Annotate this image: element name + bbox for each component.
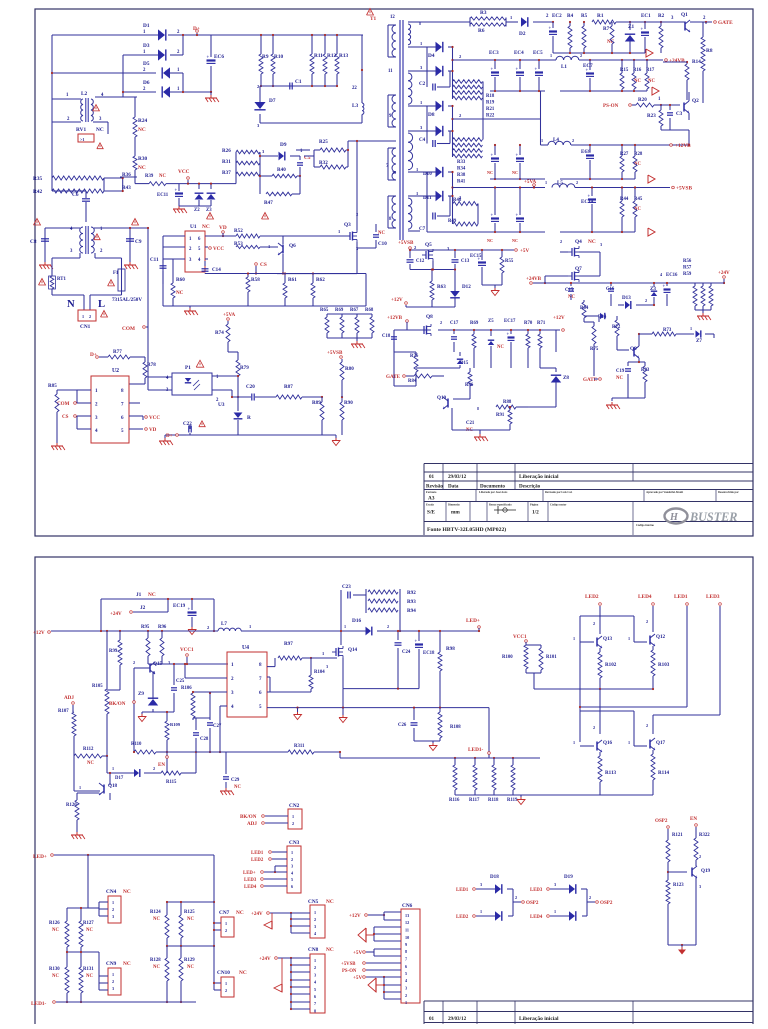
svg-text:+5VSB: +5VSB (341, 962, 356, 967)
svg-text:Q12: Q12 (656, 634, 666, 640)
svg-text:R60: R60 (176, 277, 185, 283)
svg-text:LED1: LED1 (456, 888, 469, 893)
svg-text:+24V: +24V (259, 956, 271, 962)
svg-text:2: 2 (572, 138, 574, 143)
svg-text:NC: NC (153, 965, 160, 970)
svg-text:ADJ: ADJ (64, 695, 74, 701)
svg-text:Código interno: Código interno (636, 524, 655, 527)
svg-text:2: 2 (699, 854, 701, 859)
svg-text:Q17: Q17 (656, 740, 666, 746)
svg-text:1: 1 (628, 740, 630, 745)
svg-text:R62: R62 (316, 277, 325, 283)
svg-text:VCC: VCC (213, 246, 224, 252)
svg-text:U2: U2 (112, 368, 119, 374)
svg-text:OSP2: OSP2 (655, 818, 668, 824)
svg-text:3: 3 (699, 884, 701, 889)
svg-text:8: 8 (405, 949, 407, 954)
svg-text:R68: R68 (365, 308, 374, 313)
svg-text:F1: F1 (113, 271, 119, 276)
svg-text:R12: R12 (327, 53, 336, 59)
svg-text:NC: NC (236, 910, 244, 916)
svg-text:OSP2: OSP2 (526, 900, 539, 906)
svg-text:1: 1 (112, 900, 114, 905)
svg-text:Q4: Q4 (575, 239, 582, 245)
svg-text:1: 1 (541, 138, 543, 143)
svg-text:2: 2 (291, 857, 293, 862)
svg-text:8: 8 (314, 1008, 316, 1013)
svg-text:EC1: EC1 (641, 13, 651, 19)
svg-text:L1: L1 (561, 64, 567, 70)
svg-text:EC19: EC19 (173, 603, 186, 609)
svg-text:R20: R20 (638, 97, 647, 103)
svg-text:1: 1 (344, 624, 346, 629)
svg-text:+: + (175, 188, 178, 193)
svg-text:mm: mm (451, 510, 460, 516)
svg-text:1: 1 (550, 53, 552, 58)
svg-text:P1: P1 (185, 365, 191, 371)
svg-text:R38: R38 (457, 173, 466, 178)
svg-text:1: 1 (225, 981, 227, 986)
svg-text:Escala: Escala (426, 504, 434, 507)
svg-text:Q14: Q14 (348, 647, 358, 653)
svg-text:5: 5 (314, 987, 316, 992)
svg-text:R106: R106 (181, 686, 192, 691)
svg-text:NC: NC (497, 345, 504, 350)
svg-text:NC: NC (123, 961, 131, 967)
svg-text:+: + (586, 150, 589, 155)
svg-text:BK/ON: BK/ON (240, 814, 257, 820)
svg-text:D6: D6 (143, 80, 150, 86)
svg-text:C10: C10 (378, 241, 387, 247)
svg-text:R119: R119 (507, 798, 518, 803)
svg-text:EN: EN (158, 762, 165, 768)
svg-text:Q19: Q19 (701, 868, 711, 874)
svg-text:R93: R93 (407, 599, 416, 605)
svg-text:R113: R113 (605, 770, 616, 776)
svg-text:Z5: Z5 (488, 319, 494, 324)
svg-text:R118: R118 (488, 798, 499, 803)
svg-text:R101: R101 (546, 655, 557, 660)
svg-text:NC: NC (512, 170, 518, 175)
svg-text:+5VA: +5VA (223, 312, 235, 318)
svg-text:R115: R115 (166, 780, 177, 785)
svg-text:+: + (516, 153, 519, 158)
svg-text:R40: R40 (277, 167, 286, 173)
svg-text:29/03/12: 29/03/12 (448, 474, 467, 480)
svg-text:Z9: Z9 (138, 691, 144, 697)
svg-text:+: + (516, 213, 519, 218)
svg-text:3: 3 (112, 986, 114, 991)
svg-text:U4: U4 (242, 645, 249, 651)
svg-text:Aprovado por Vanderlei Abatti: Aprovado por Vanderlei Abatti (646, 491, 683, 494)
svg-text:U3: U3 (218, 402, 225, 408)
svg-text:R3: R3 (480, 10, 487, 16)
svg-text:R67: R67 (350, 308, 359, 313)
svg-text:Data: Data (448, 484, 459, 490)
svg-text:R14: R14 (692, 59, 701, 65)
svg-text:NC: NC (138, 165, 146, 171)
svg-text:CN5: CN5 (308, 899, 319, 905)
svg-text:NC: NC (187, 965, 194, 970)
svg-text:NC: NC (176, 290, 184, 296)
svg-text:R311: R311 (294, 744, 305, 749)
svg-text:C12: C12 (416, 259, 425, 264)
svg-text:N: N (67, 299, 75, 310)
svg-text:CN6: CN6 (402, 903, 413, 909)
svg-text:Código motor: Código motor (550, 504, 567, 507)
svg-text:R131: R131 (83, 967, 94, 972)
svg-text:NC: NC (148, 592, 156, 598)
svg-text:NC: NC (487, 170, 493, 175)
svg-text:EC17: EC17 (504, 319, 516, 324)
svg-text:R47: R47 (264, 200, 273, 206)
svg-text:3: 3 (314, 972, 316, 977)
svg-text:Liberado por José Assis: Liberado por José Assis (479, 491, 508, 494)
svg-text:3: 3 (405, 986, 407, 991)
svg-text:LED2: LED2 (456, 915, 469, 920)
svg-text:C26: C26 (398, 723, 407, 728)
svg-text:H: H (669, 512, 679, 523)
svg-text:EC2: EC2 (552, 13, 562, 19)
svg-text:NC: NC (138, 127, 146, 133)
svg-text:1: 1 (480, 909, 482, 914)
svg-text:R114: R114 (658, 770, 669, 776)
svg-text:T1: T1 (370, 16, 377, 22)
svg-text:EC15: EC15 (470, 254, 482, 259)
svg-text:R112: R112 (83, 747, 94, 752)
svg-text:+: + (478, 257, 481, 262)
svg-text:NC: NC (187, 917, 194, 922)
svg-text:+12V: +12V (33, 630, 45, 636)
svg-text:2: 2 (225, 928, 227, 933)
svg-text:1: 1 (554, 909, 556, 914)
svg-text:+: + (491, 213, 494, 218)
svg-text:GATE: GATE (386, 374, 401, 380)
svg-text:NC: NC (123, 889, 131, 895)
svg-text:LED+: LED+ (33, 854, 47, 860)
svg-text:D16: D16 (352, 618, 361, 624)
svg-text:BUSTER: BUSTER (689, 510, 737, 524)
svg-text:Q3: Q3 (344, 222, 351, 228)
svg-text:1: 1 (291, 850, 293, 855)
svg-text:+12VB: +12VB (387, 315, 403, 321)
svg-text:R98: R98 (446, 646, 455, 652)
svg-text:2: 2 (515, 895, 517, 900)
svg-text:R11: R11 (314, 53, 323, 59)
svg-text:Formato: Formato (426, 491, 437, 494)
svg-text:3: 3 (326, 664, 328, 669)
svg-text:R126: R126 (49, 921, 60, 926)
svg-text:D2: D2 (519, 31, 526, 37)
svg-text:C25: C25 (176, 679, 185, 684)
svg-text:R59: R59 (683, 272, 692, 277)
svg-text:R52: R52 (234, 228, 243, 234)
svg-text:R10: R10 (274, 54, 283, 60)
svg-text:7315AL/250V: 7315AL/250V (112, 297, 142, 303)
svg-text:R35: R35 (33, 176, 42, 182)
svg-text:Descrição: Descrição (519, 484, 541, 490)
svg-text:R39: R39 (145, 174, 154, 179)
svg-text:VCC: VCC (178, 169, 190, 175)
svg-text:+: + (516, 67, 519, 72)
svg-text:EC5: EC5 (533, 50, 543, 56)
svg-text:Desenvolvido por: Desenvolvido por (718, 491, 740, 494)
svg-text:NC: NC (588, 239, 596, 245)
svg-text:LED1-: LED1- (31, 1001, 47, 1007)
svg-text:13: 13 (405, 913, 409, 918)
svg-text:C17: C17 (450, 321, 459, 326)
svg-text:R65: R65 (320, 308, 329, 313)
svg-text:EC11: EC11 (157, 193, 169, 198)
svg-text:R130: R130 (49, 967, 60, 972)
svg-text:C18: C18 (382, 334, 391, 339)
svg-text:+24V: +24V (251, 911, 263, 917)
svg-text:5: 5 (405, 971, 407, 976)
svg-text:CS: CS (260, 262, 267, 268)
svg-text:NC: NC (234, 785, 241, 790)
svg-text:R94: R94 (407, 608, 416, 614)
svg-text:C2: C2 (419, 81, 426, 87)
svg-text:2: 2 (387, 624, 389, 629)
svg-text:2: 2 (576, 180, 578, 185)
svg-text:LED2: LED2 (585, 594, 599, 600)
svg-text:J1: J1 (136, 592, 142, 598)
svg-text:Página: Página (530, 504, 539, 507)
svg-text:+5VSB: +5VSB (398, 240, 414, 246)
svg-text:Z7: Z7 (696, 338, 702, 344)
svg-text:2: 2 (89, 314, 91, 319)
svg-text:Q8: Q8 (426, 314, 433, 320)
svg-text:Fonte HBTV-32L05HD (MP022): Fonte HBTV-32L05HD (MP022) (427, 526, 506, 533)
svg-text:C29: C29 (231, 778, 240, 783)
svg-text:L7: L7 (221, 621, 227, 627)
svg-text:+: + (491, 67, 494, 72)
svg-text:Q16: Q16 (603, 740, 613, 746)
svg-text:R105: R105 (92, 684, 103, 689)
svg-text:2: 2 (112, 979, 114, 984)
svg-text:2: 2 (580, 53, 582, 58)
svg-text:01: 01 (429, 474, 435, 480)
svg-text:R107: R107 (58, 709, 69, 714)
svg-text:+5VSB: +5VSB (327, 350, 343, 356)
svg-text:2: 2 (593, 621, 595, 626)
svg-text:R58: R58 (251, 277, 260, 283)
svg-text:R102: R102 (605, 662, 617, 668)
svg-text:NC: NC (378, 231, 385, 236)
svg-text:1: 1 (225, 921, 227, 926)
svg-text:R7: R7 (603, 26, 610, 32)
svg-text:NC: NC (96, 127, 104, 133)
svg-text:R121: R121 (672, 833, 683, 838)
svg-text:LED3: LED3 (706, 594, 720, 600)
svg-text:LED+: LED+ (466, 618, 480, 624)
svg-text:C3: C3 (676, 111, 683, 117)
svg-text:10: 10 (405, 935, 409, 940)
svg-text:RV1: RV1 (76, 127, 86, 133)
svg-text:L4: L4 (553, 137, 559, 143)
svg-text:GATE: GATE (718, 20, 733, 26)
svg-text:3: 3 (112, 914, 114, 919)
svg-text:C9: C9 (135, 239, 142, 245)
svg-text:VCC1: VCC1 (180, 647, 194, 653)
svg-text:R322: R322 (699, 833, 710, 838)
svg-text:C28: C28 (200, 737, 209, 742)
svg-text:D17: D17 (115, 776, 124, 781)
svg-text:R69: R69 (335, 308, 344, 313)
svg-text:R104: R104 (314, 670, 325, 675)
svg-text:A3: A3 (428, 496, 435, 502)
svg-text:R26: R26 (222, 148, 231, 154)
svg-text:7: 7 (314, 1001, 316, 1006)
svg-text:6: 6 (405, 964, 407, 969)
svg-text:R9: R9 (262, 54, 269, 60)
svg-text:2: 2 (153, 766, 155, 771)
svg-text:R61: R61 (288, 277, 297, 283)
svg-text:EC3: EC3 (489, 50, 499, 56)
svg-text:+24V: +24V (110, 611, 122, 617)
svg-text:1: 1 (690, 326, 692, 331)
svg-text:+12V: +12V (553, 315, 565, 321)
svg-text:LED2: LED2 (251, 858, 264, 863)
svg-text:R: R (247, 415, 251, 421)
svg-text:R84: R84 (408, 379, 417, 384)
svg-text:12: 12 (405, 920, 409, 925)
svg-text:R88: R88 (503, 400, 512, 405)
svg-text:L3: L3 (352, 103, 359, 109)
svg-text:R4: R4 (567, 13, 574, 19)
svg-text:Documento: Documento (480, 484, 505, 490)
svg-text:+24VB: +24VB (669, 58, 685, 64)
svg-text:NC: NC (648, 79, 655, 84)
svg-text:R24: R24 (138, 118, 147, 124)
svg-text:+12VB: +12VB (675, 143, 691, 149)
svg-text:LED4: LED4 (638, 594, 652, 600)
svg-text:1: 1 (79, 785, 81, 790)
svg-text:CN7: CN7 (219, 910, 230, 916)
svg-text:30: 30 (392, 170, 396, 175)
svg-text:R63: R63 (437, 284, 446, 290)
svg-text:L: L (98, 299, 105, 310)
svg-text:R33: R33 (457, 160, 466, 165)
svg-text:+: + (588, 194, 591, 199)
svg-text:Dimensão: Dimensão (448, 504, 460, 507)
svg-text:EC18: EC18 (423, 651, 435, 656)
svg-text:CN8: CN8 (308, 947, 319, 953)
svg-text:EN: EN (690, 816, 697, 822)
svg-text:L2: L2 (81, 91, 88, 97)
svg-text:6: 6 (314, 994, 316, 999)
svg-text:3: 3 (314, 924, 316, 929)
svg-text:R21: R21 (486, 107, 495, 112)
svg-text:R8: R8 (706, 48, 713, 54)
svg-text:NC: NC (52, 928, 59, 933)
svg-text:NC: NC (239, 970, 247, 976)
svg-text:C11: C11 (150, 257, 159, 263)
svg-text:C7: C7 (419, 226, 426, 232)
svg-text:3: 3 (480, 882, 482, 887)
svg-text:R41: R41 (457, 180, 466, 185)
svg-text:C14: C14 (212, 267, 221, 273)
svg-text:C4: C4 (419, 137, 426, 143)
svg-text:D8: D8 (428, 112, 435, 118)
svg-text:2: 2 (292, 821, 294, 826)
svg-text:R2: R2 (658, 13, 665, 19)
svg-text:R95: R95 (141, 625, 150, 630)
svg-text:LED3: LED3 (530, 888, 543, 893)
svg-text:R6: R6 (478, 28, 485, 34)
svg-text:Q1: Q1 (681, 12, 688, 18)
svg-text:+: + (207, 55, 210, 60)
svg-text:R31: R31 (222, 159, 231, 165)
svg-text:VCC1: VCC1 (513, 634, 527, 640)
svg-text:VD: VD (149, 427, 157, 433)
svg-text:R97: R97 (284, 641, 293, 647)
svg-text:+12V: +12V (349, 913, 361, 919)
svg-text:R34: R34 (457, 167, 466, 172)
svg-text:+: + (415, 639, 418, 644)
svg-text:S/E: S/E (427, 510, 435, 516)
svg-text:R110: R110 (131, 742, 142, 747)
svg-text:Z1: Z1 (628, 24, 635, 30)
svg-text:R37: R37 (222, 170, 231, 176)
svg-text:R56: R56 (683, 259, 692, 264)
svg-text:2: 2 (225, 988, 227, 993)
svg-text:2: 2 (646, 723, 648, 728)
svg-text:NC: NC (487, 238, 493, 243)
svg-text:1: 1 (573, 740, 575, 745)
svg-text:R128: R128 (150, 958, 161, 963)
svg-text:+5V: +5V (353, 975, 362, 981)
svg-text:29/03/12: 29/03/12 (448, 1016, 467, 1022)
svg-text:C27: C27 (213, 724, 222, 729)
svg-text:+: + (535, 67, 538, 72)
svg-text:R42: R42 (33, 189, 42, 195)
svg-text:3: 3 (291, 864, 293, 869)
svg-text:+: + (491, 153, 494, 158)
svg-text:C21: C21 (466, 421, 475, 426)
svg-text:R125: R125 (184, 910, 195, 915)
svg-text:NC: NC (512, 238, 518, 243)
svg-text:CN2: CN2 (289, 803, 300, 809)
svg-text:+12V: +12V (391, 297, 403, 303)
svg-text:Q13: Q13 (603, 636, 613, 642)
svg-text:R43: R43 (122, 185, 131, 191)
svg-text:D7: D7 (269, 98, 276, 104)
svg-text:NC: NC (568, 295, 575, 300)
svg-text:3: 3 (554, 882, 556, 887)
svg-text:C6: C6 (72, 192, 79, 198)
svg-text:R55: R55 (505, 259, 514, 264)
svg-text:CN9: CN9 (106, 961, 117, 967)
svg-text:NC: NC (202, 224, 210, 230)
svg-text:R57: R57 (683, 266, 692, 271)
svg-text:2: 2 (560, 239, 562, 244)
svg-text:12: 12 (390, 15, 395, 20)
svg-text:LED1: LED1 (251, 851, 264, 856)
svg-text:Recuo especificado: Recuo especificado (489, 504, 512, 507)
svg-text:+: + (507, 332, 510, 337)
svg-text:Z3: Z3 (206, 208, 212, 213)
svg-text:R89: R89 (312, 400, 321, 406)
svg-text:R30: R30 (138, 156, 147, 162)
svg-text:NC: NC (326, 947, 334, 953)
svg-text:+: + (549, 26, 552, 31)
svg-text:NC: NC (86, 928, 93, 933)
svg-text:R80: R80 (345, 366, 354, 372)
svg-text:2: 2 (405, 993, 407, 998)
svg-text:2: 2 (112, 907, 114, 912)
svg-text:R78: R78 (147, 362, 156, 368)
